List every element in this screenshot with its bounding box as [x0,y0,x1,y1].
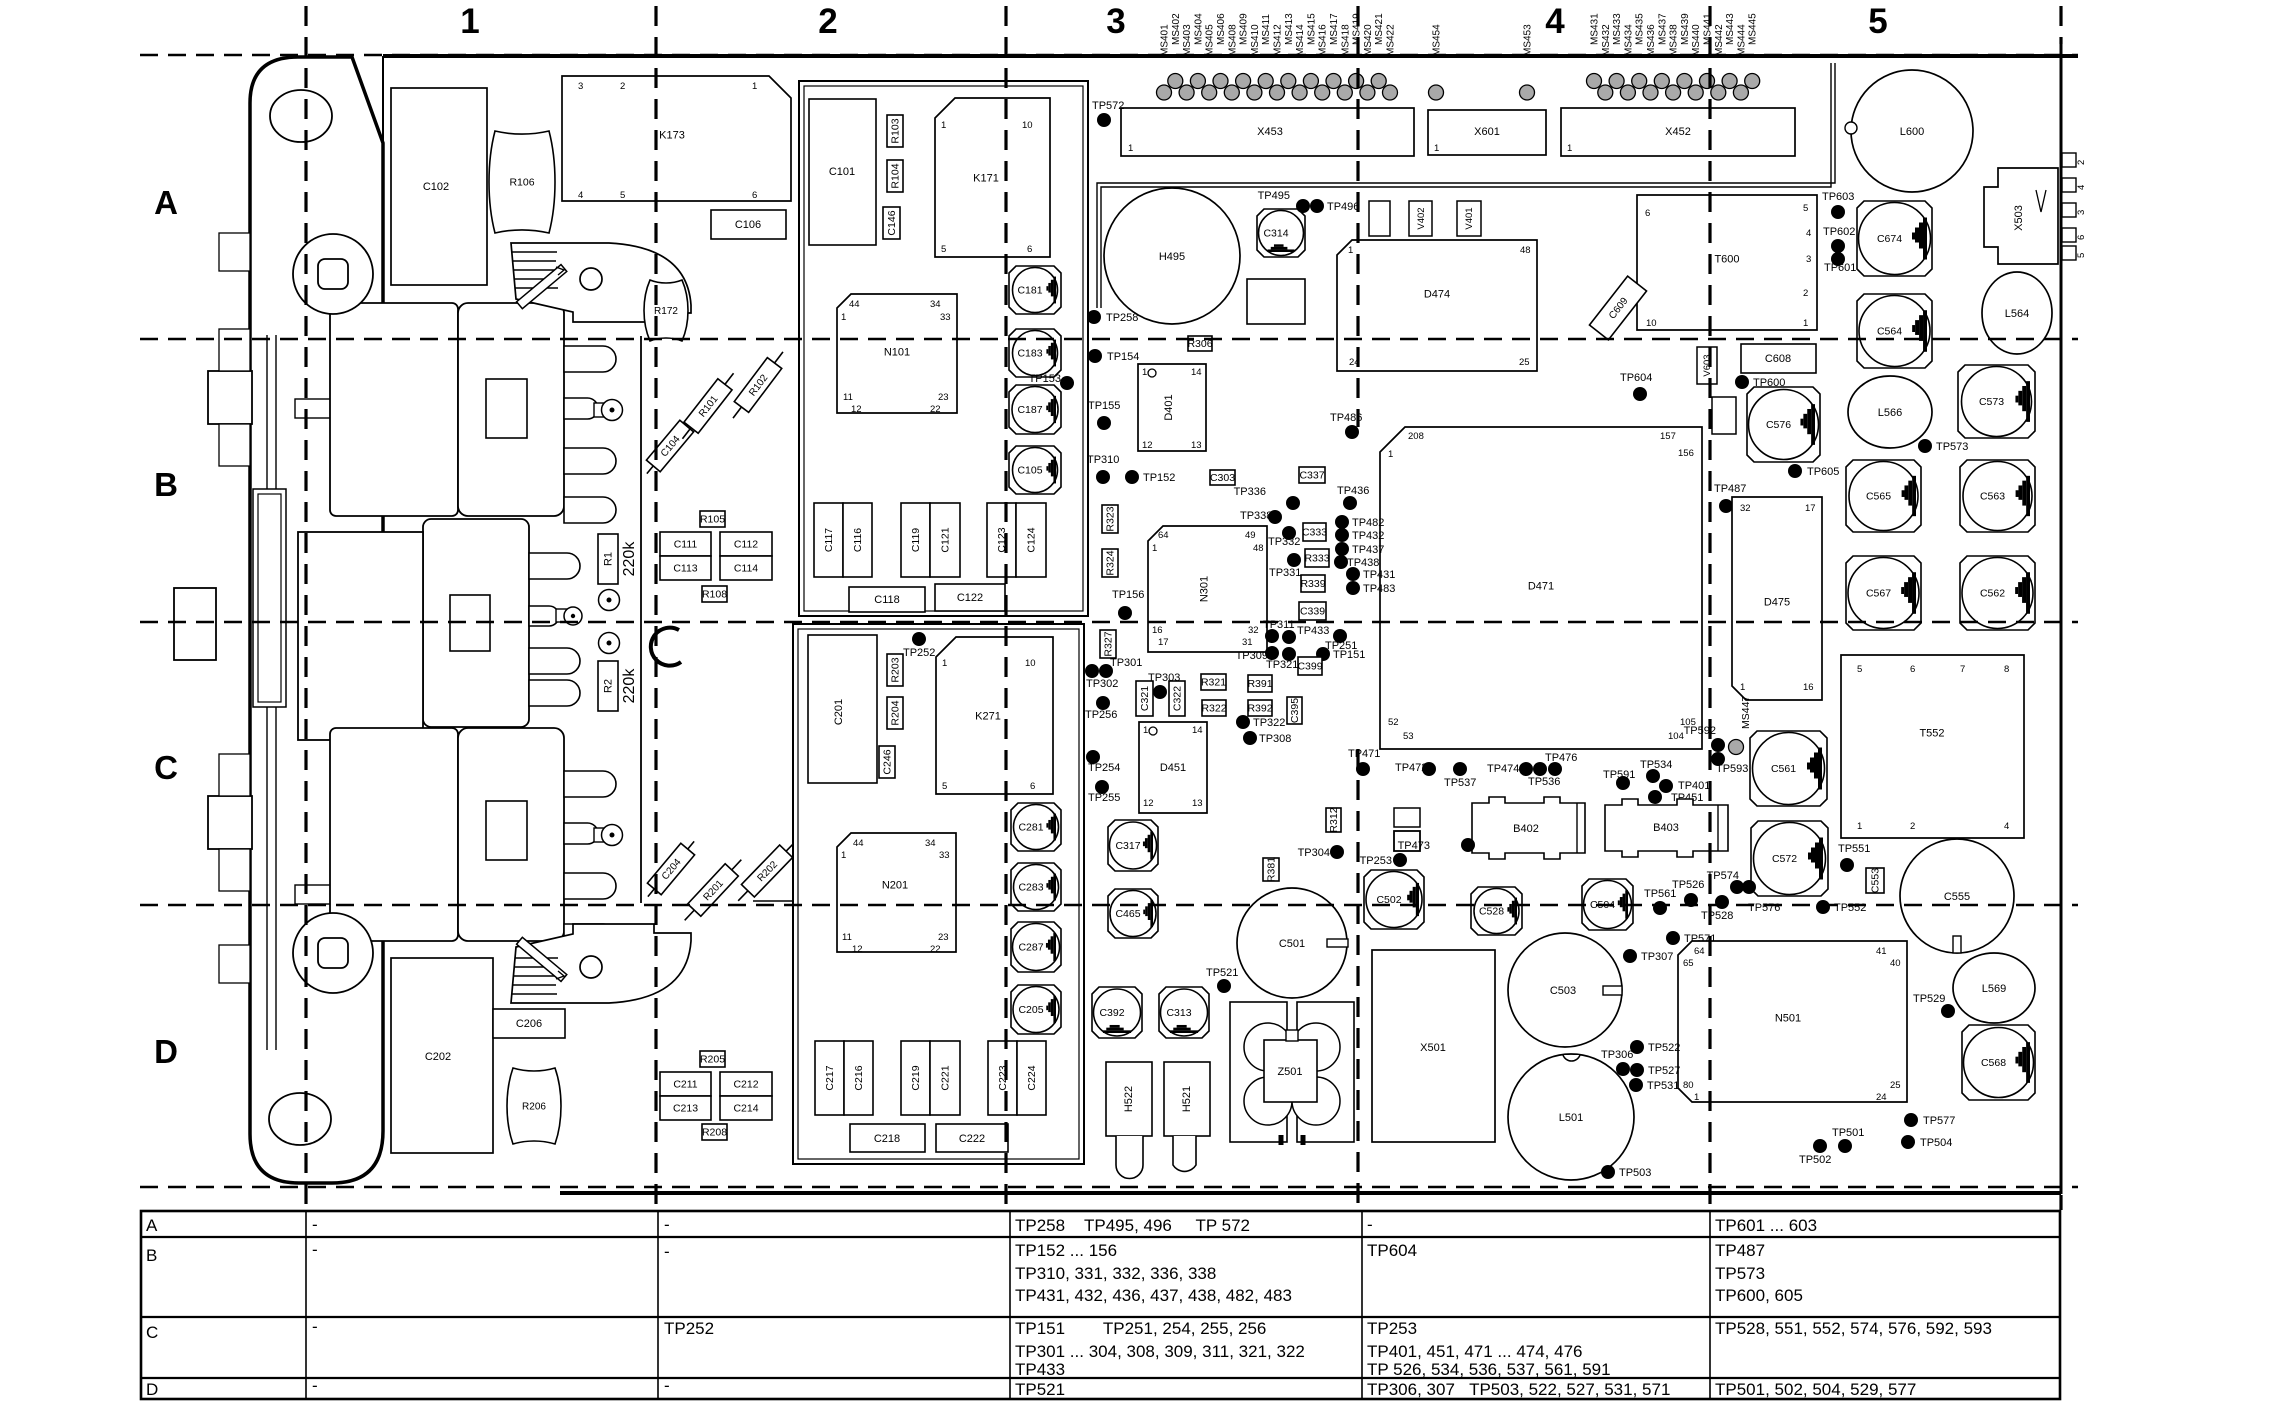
svg-text:5: 5 [942,781,947,792]
svg-text:TP573: TP573 [1936,441,1968,453]
capacitor C146 [883,207,900,239]
test point TP322 [1236,715,1285,729]
svg-text:K271: K271 [975,711,1001,723]
svg-text:MS417: MS417 [1329,13,1340,45]
svg-text:T600: T600 [1714,254,1739,266]
bracket left thin plate [253,489,286,707]
svg-text:TP307: TP307 [1641,951,1673,963]
capacitor C528 [1471,887,1522,935]
svg-text:C111: C111 [674,539,698,551]
svg-text:MS402: MS402 [1171,13,1182,45]
svg-text:MS443: MS443 [1725,13,1736,45]
svg-text:TP487: TP487 [1715,1241,1765,1260]
svg-text:34: 34 [925,838,936,849]
svg-text:MS433: MS433 [1612,13,1623,45]
svg-text:MS432: MS432 [1601,24,1612,56]
bracket small tab 5 [219,945,250,983]
svg-text:22: 22 [930,404,941,415]
svg-text:12: 12 [852,944,863,955]
svg-text:49: 49 [1245,530,1256,541]
svg-text:R312: R312 [1328,807,1340,832]
svg-text:TP473: TP473 [1398,840,1430,852]
svg-text:X503: X503 [2013,205,2025,231]
coil L566 [1848,376,1932,448]
svg-text:-: - [312,1215,318,1234]
svg-text:L564: L564 [2005,308,2029,320]
capacitor C339 [1299,602,1326,620]
test point TP431 [1346,567,1395,581]
svg-text:L566: L566 [1878,407,1902,419]
svg-text:4: 4 [1545,2,1565,41]
svg-text:MS411: MS411 [1261,14,1272,45]
capacitor C218 [850,1124,925,1152]
capacitor C392 [1092,987,1142,1038]
svg-text:MS431: MS431 [1590,13,1601,45]
resistor R339 [1301,575,1325,592]
svg-text:MS415: MS415 [1306,13,1317,45]
test point TP306 [1601,1049,1633,1076]
rect pad near H495 [1247,279,1305,324]
svg-text:65: 65 [1683,958,1694,969]
svg-text:-: - [312,1317,318,1336]
test point TP308 [1243,731,1291,745]
test point location table [141,1211,2060,1399]
IC D401 [1138,364,1206,451]
test point TP501 [1813,1127,1864,1153]
test point TP602 [1823,226,1855,253]
capacitor C567 [1846,556,1921,630]
svg-text:C283: C283 [1018,882,1043,894]
svg-text:K173: K173 [659,130,685,142]
test point TP536 [1528,776,1560,788]
diode V402 [1409,201,1432,236]
svg-text:C211: C211 [673,1079,697,1091]
connector middle pin finger 4 [529,680,580,706]
capacitor C117 [814,503,843,577]
svg-text:C221: C221 [940,1065,952,1090]
svg-text:TP551: TP551 [1838,843,1870,855]
ferrite B403 [1605,799,1728,857]
bracket circle boss top [293,234,373,314]
svg-text:R333: R333 [1304,553,1329,565]
svg-text:64: 64 [1694,946,1705,957]
capacitor C246 [879,746,895,778]
IC N101 [837,294,957,413]
resistor R101 [675,368,740,444]
svg-text:TP252: TP252 [664,1319,714,1338]
svg-text:MS403: MS403 [1182,24,1193,56]
svg-text:D451: D451 [1160,762,1186,774]
svg-text:X453: X453 [1257,126,1283,138]
svg-text:TP336: TP336 [1234,486,1266,498]
svg-text:MS434: MS434 [1623,24,1634,56]
connector B pin finger 2 with pad [564,398,623,421]
svg-text:R108: R108 [702,589,727,601]
svg-text:156: 156 [1678,448,1694,459]
test point TP601 [1824,252,1856,274]
relay K171 [935,98,1050,257]
connector X501 [1372,950,1495,1142]
capacitor C213 [660,1096,711,1120]
svg-text:2: 2 [1803,288,1808,299]
capacitor C202 [391,958,493,1153]
grid horizontal dashed lines [140,55,2078,1187]
resistor R323 [1102,505,1118,533]
svg-text:33: 33 [939,850,950,861]
test point TP600 [1735,375,1785,389]
capacitor C572 [1751,821,1828,896]
svg-text:TP483: TP483 [1363,583,1395,595]
bracket bottom oval hole [269,1093,331,1145]
svg-text:TP527: TP527 [1648,1065,1680,1077]
resistor R306 [1188,336,1212,351]
pad below R1 [599,633,620,654]
svg-text:L569: L569 [1982,983,2006,995]
svg-text:R105: R105 [700,514,725,526]
svg-text:C216: C216 [853,1065,865,1090]
grid vertical dashed lines [306,6,2061,1210]
svg-text:2: 2 [2076,160,2087,165]
test point TP152 [1125,470,1175,484]
svg-text:1: 1 [941,120,946,131]
svg-text:C117: C117 [823,528,835,552]
IC N501 [1678,941,1907,1102]
test point TP303 [1148,672,1180,699]
test point TP155 [1088,400,1120,430]
capacitor C206 [493,1009,565,1038]
coil L501 [1508,1054,1634,1180]
svg-text:22: 22 [930,944,941,955]
svg-text:TP433: TP433 [1297,625,1329,637]
svg-text:MS413: MS413 [1284,13,1295,45]
diode V401 [1457,201,1481,236]
capacitor C211 [660,1072,711,1096]
svg-text:1: 1 [460,2,479,41]
bracket small tab 0 [219,233,250,271]
test point TP482 [1335,515,1384,529]
svg-text:Z501: Z501 [1277,1066,1302,1078]
svg-text:R381: R381 [1266,857,1278,882]
crystal Z501 [1230,1002,1354,1145]
capacitor C504 [1582,879,1633,930]
svg-text:TP526: TP526 [1672,879,1704,891]
test point TP401 [1659,779,1710,793]
capacitor C564 [1857,294,1932,368]
test point TP521 [1206,967,1238,993]
coil L600 [1845,70,1973,192]
capacitor C576 [1747,387,1820,462]
test point TP436 [1337,485,1369,510]
svg-text:MS404: MS404 [1193,13,1204,45]
svg-text:D475: D475 [1764,597,1790,609]
svg-text:D471: D471 [1528,581,1554,593]
svg-text:5: 5 [620,190,625,201]
test point TP476 [1545,752,1577,776]
svg-text:C121: C121 [940,527,952,552]
transformer T552 [1841,655,2024,838]
svg-text:TP572: TP572 [1092,100,1124,112]
resistor R322 [1202,700,1226,716]
resistor R204 [887,697,903,729]
svg-text:C206: C206 [516,1018,542,1030]
svg-text:TP602: TP602 [1823,226,1855,238]
test point TP151 [1316,647,1365,661]
svg-text:TP432: TP432 [1352,530,1384,542]
svg-text:H521: H521 [1181,1086,1193,1112]
svg-text:TP306: TP306 [1601,1049,1633,1061]
connector body C right [458,728,564,941]
test point TP302 [1086,678,1118,690]
svg-text:R391: R391 [1247,678,1272,690]
capacitor C561 [1750,731,1827,806]
test point TP487 [1714,483,1746,513]
connector X452 [1561,108,1795,156]
resistor R392 [1248,700,1272,716]
svg-text:TP476: TP476 [1545,752,1577,764]
svg-text:MS418: MS418 [1340,24,1351,56]
svg-text:TP308: TP308 [1259,733,1291,745]
svg-text:TP573: TP573 [1715,1264,1765,1283]
svg-text:TP495: TP495 [1258,190,1290,202]
resistor R381 [1263,858,1279,881]
svg-text:48: 48 [1520,245,1531,256]
MS447 pad [1729,696,1753,755]
svg-text:MS406: MS406 [1216,13,1227,45]
svg-text:TP593: TP593 [1716,763,1748,775]
svg-text:4: 4 [2004,821,2009,832]
svg-text:H522: H522 [1123,1086,1135,1112]
capacitor C105 [1009,446,1061,494]
svg-text:TP528, 551, 552, 574, 576, 592: TP528, 551, 552, 574, 576, 592, 593 [1715,1319,1992,1338]
test point TP432 [1335,528,1384,542]
connector port middle [174,588,216,660]
svg-text:TP537: TP537 [1444,777,1476,789]
svg-text:C119: C119 [910,528,922,552]
svg-text:C224: C224 [1026,1065,1038,1090]
svg-text:1: 1 [1152,543,1157,554]
bracket crossbar B [295,399,364,418]
svg-text:C322: C322 [1172,686,1184,711]
svg-text:TP482: TP482 [1352,517,1384,529]
svg-text:1: 1 [841,850,846,861]
svg-text:R104: R104 [890,163,902,188]
capacitor C565 [1846,460,1921,532]
svg-text:TP309: TP309 [1236,650,1268,662]
svg-text:TP496: TP496 [1327,201,1359,213]
svg-text:14: 14 [1191,367,1202,378]
svg-text:MS420: MS420 [1363,24,1374,56]
svg-text:C217: C217 [824,1065,836,1090]
svg-text:TP252: TP252 [903,647,935,659]
connector body B left [330,303,458,516]
diode V603 [1697,347,1717,384]
capacitor C122 [935,584,1005,611]
wire PCB bottom edge [560,1191,2061,1195]
svg-text:8: 8 [2004,664,2009,675]
svg-text:R339: R339 [1300,578,1325,590]
svg-text:TP536: TP536 [1528,776,1560,788]
capacitor C204 [641,836,701,903]
svg-text:1: 1 [1857,821,1862,832]
svg-text:C333: C333 [1302,527,1327,539]
svg-text:A: A [146,1216,158,1235]
capacitor C121 [930,503,960,577]
svg-text:TP332: TP332 [1268,536,1300,548]
svg-text:MS416: MS416 [1318,24,1329,56]
bracket small tab 1 [219,329,250,371]
connector B pin finger 4 [564,497,616,523]
capacitor C283 [1011,863,1061,911]
transformer T600 [1637,195,1817,330]
svg-text:1: 1 [1694,1092,1699,1103]
relay K271 [936,637,1053,794]
svg-text:C113: C113 [673,563,697,575]
test point TP528 [1701,895,1733,922]
svg-text:MS408: MS408 [1227,24,1238,56]
capacitor C322 [1169,681,1185,716]
svg-text:44: 44 [853,838,864,849]
svg-text:TP561: TP561 [1644,888,1676,900]
svg-text:TP431, 432, 436, 437, 438, 482: TP431, 432, 436, 437, 438, 482, 483 [1015,1286,1292,1305]
test point TP573 [1918,439,1968,453]
test point TP451 [1648,790,1703,804]
resistor R205 [700,1051,725,1067]
MS453 pad [1520,24,1535,100]
svg-text:TP302: TP302 [1086,678,1118,690]
svg-text:R323: R323 [1105,506,1117,531]
bracket top oval hole [270,90,332,142]
svg-text:24: 24 [1876,1092,1887,1103]
wire loop cutout [651,628,681,666]
capacitor C123 [987,503,1016,577]
test point TP483 [1346,581,1395,595]
svg-text:C246: C246 [882,749,894,774]
svg-text:C187: C187 [1017,404,1042,416]
capacitor C111 [660,532,711,556]
capacitor C116 [843,503,872,577]
capacitor C321 [1136,681,1153,716]
svg-text:1: 1 [1348,245,1353,256]
svg-text:R208: R208 [702,1127,727,1139]
test point TP153 [1029,373,1074,390]
svg-text:6: 6 [1645,208,1650,219]
svg-text:N501: N501 [1775,1013,1801,1025]
svg-text:TP433: TP433 [1015,1360,1065,1379]
wire PCB top edge [383,54,2078,58]
svg-text:52: 52 [1388,717,1399,728]
svg-text:5: 5 [1868,2,1887,41]
svg-text:10: 10 [1022,120,1033,131]
svg-text:MS441: MS441 [1703,13,1714,45]
svg-text:H495: H495 [1159,251,1185,263]
svg-text:TP604: TP604 [1367,1241,1417,1260]
svg-text:TP152 ... 156: TP152 ... 156 [1015,1241,1117,1260]
test point TP603 [1822,191,1854,219]
svg-text:C105: C105 [1017,465,1042,477]
svg-text:TP306, 307 TP503, 522, 527,: TP306, 307 TP503, 522, 527, 531, 571 [1367,1380,1670,1399]
svg-text:TP531: TP531 [1647,1080,1679,1092]
svg-text:MS438: MS438 [1669,24,1680,56]
svg-text:C339: C339 [1300,606,1325,618]
test point TP486 [1330,412,1362,439]
svg-text:14: 14 [1192,725,1203,736]
connector X453 [1121,108,1414,156]
svg-text:C124: C124 [1026,527,1038,552]
svg-text:6: 6 [1910,664,1915,675]
capacitor C399 [1298,657,1322,675]
test point TP527 [1630,1063,1680,1077]
connector middle pin finger 1 [529,553,580,579]
resistor R391 [1248,675,1272,692]
svg-text:TP534: TP534 [1640,759,1672,771]
svg-text:X501: X501 [1420,1042,1446,1054]
test point TP571 [1666,931,1716,945]
test point TP576 [1742,880,1780,914]
svg-text:33: 33 [940,312,951,323]
MS401-MS422 pads [1157,13,1398,100]
svg-text:1: 1 [1128,143,1133,154]
capacitor C113 [660,556,711,580]
svg-text:R203: R203 [890,657,902,682]
bracket small tab 4 [219,849,250,891]
capacitor C217 [815,1041,844,1115]
capacitor C502 [1364,870,1424,929]
svg-text:13: 13 [1191,440,1202,451]
svg-text:C553: C553 [1870,868,1882,893]
svg-text:MS436: MS436 [1646,24,1657,56]
capacitor C333 [1303,523,1326,541]
svg-text:TP155: TP155 [1088,400,1120,412]
test point TP503 [1601,1165,1651,1179]
svg-text:5: 5 [1803,203,1808,214]
svg-text:C465: C465 [1115,908,1140,920]
svg-text:-: - [664,1242,670,1261]
svg-text:17: 17 [1805,503,1816,514]
svg-text:64: 64 [1158,530,1169,541]
MS454 pad [1429,24,1444,100]
pad rect near B402 lower [1394,831,1420,851]
connector C pin finger 3 [564,873,616,899]
connector B pin finger 3 [564,448,616,474]
svg-text:C212: C212 [733,1079,758,1091]
svg-text:B403: B403 [1653,822,1679,834]
capacitor C313 [1159,987,1209,1038]
lamp H522 [1106,1062,1152,1179]
svg-text:C101: C101 [829,166,855,178]
svg-text:1: 1 [1434,143,1439,154]
capacitor C212 [720,1072,772,1096]
svg-text:5: 5 [941,244,946,255]
svg-text:TP321: TP321 [1266,659,1298,671]
connector body C left [330,728,458,941]
svg-text:MS440: MS440 [1691,24,1702,56]
test point TP156 [1112,589,1144,620]
bracket inner vertical seams [267,335,276,1050]
connector block left of middle [298,532,423,740]
test point TP251 [1325,629,1357,652]
connector B pin finger 1 [564,346,616,372]
svg-text:C399: C399 [1297,661,1322,673]
capacitor C187 [1009,385,1061,434]
svg-text:MS439: MS439 [1680,13,1691,45]
capacitor C224 [1017,1041,1046,1115]
test point TP531 [1629,1078,1679,1092]
svg-text:C565: C565 [1866,491,1891,503]
capacitor C119 [901,503,930,577]
capacitor C465 [1108,889,1158,938]
test point TP336 [1234,486,1300,510]
svg-text:TP310: TP310 [1087,454,1119,466]
